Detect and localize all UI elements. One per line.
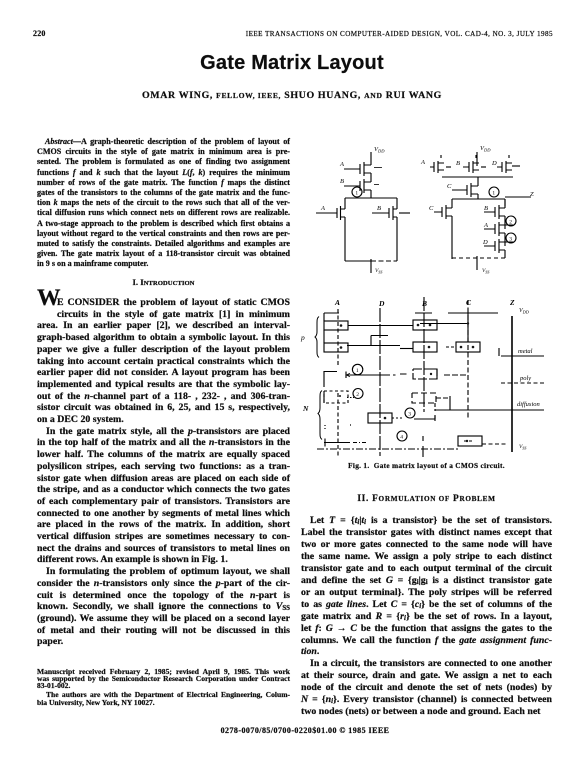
wire output rail (left circuit) [345,197,397,199]
poly line column A [337,309,339,366]
svg-text:C: C [466,298,472,307]
svg-text:A: A [339,161,344,168]
transistor QB p-FET gate B (right circuit) [456,155,486,173]
power VDD (left circuit) [371,146,385,162]
transistor box col A row p1 [324,313,348,330]
svg-text:B: B [456,160,460,167]
svg-text:4: 4 [400,435,403,441]
svg-text:1: 1 [492,191,495,197]
transistor MN1 n-FET gate A (left circuit) [316,205,345,261]
svg-text:A: A [334,298,340,307]
node 4 (matrix) [397,431,407,441]
node 3 (right circuit) [506,233,516,243]
svg-text:VDD: VDD [519,308,530,314]
transistor box col B row p2 [413,342,437,352]
svg-text:3: 3 [408,412,411,418]
node 2 (matrix) [353,389,363,399]
node 1 (right circuit) [489,187,499,197]
wire bottom-left metal segment [324,425,366,447]
svg-text:Z: Z [530,191,534,198]
poly line column B [423,297,425,412]
metal row 3 [347,336,413,349]
ground rail and Vss (right circuit) [452,256,505,274]
transistor box col B-C row n2 (dashed) [412,393,450,410]
svg-text:D: D [491,160,497,167]
poly line column C [467,300,469,420]
svg-text:VSS: VSS [482,268,489,274]
legend poly [501,375,544,383]
legend diffusion [517,401,540,408]
svg-text:2: 2 [356,392,359,398]
transistor QD p-FET gate D (right circuit) [491,155,520,173]
transistor QC2 n-FET gate C (right circuit) [429,199,452,259]
transistor box col D [368,413,404,423]
svg-text:VSS: VSS [519,444,526,450]
poly line column D [379,308,381,456]
svg-text:N: N [302,404,309,413]
svg-text:VSS: VSS [375,268,382,274]
svg-text:B: B [340,178,344,185]
svg-text:A: A [320,205,325,212]
svg-text:VDD: VDD [374,146,385,154]
legend metal [499,348,544,356]
svg-text:D: D [482,239,488,246]
svg-text:B: B [377,205,381,212]
diffusion row with col A box (dashed) [324,391,354,403]
svg-text:VDD: VDD [480,145,491,153]
svg-text:C: C [447,183,452,190]
transistor QC p-FET gate C (right circuit) [447,177,478,199]
brace N rows [302,391,322,440]
node 1 (left circuit output) [352,187,362,197]
metal row 2 [348,313,469,342]
svg-text:C: C [429,205,434,212]
common drain rail wire (right circuit) [442,176,513,178]
wire diffusion segment below node 3 [414,403,435,421]
svg-text:p: p [300,333,305,342]
node 1 (matrix) [352,364,362,374]
transistor box col C bottom row [458,436,508,446]
VDD metal row [324,308,530,314]
wire to n-FET A drain [344,198,346,209]
transistor MN2 n-FET gate B (left circuit) [372,198,410,261]
transistor QB2 n-FET gate B (series chain) [484,199,505,229]
svg-text:1: 1 [356,368,359,374]
transistor QA p-FET gate A (right circuit) [420,155,451,173]
node 2 (right circuit) [506,216,516,226]
gate line column Z (solid) [511,316,513,452]
metal row 5 / diffusion sample line [435,409,544,411]
svg-text:A: A [420,159,425,166]
wire node-1 rail and output Z [452,191,534,206]
svg-text:poly: poly [519,375,531,382]
power VDD (right circuit) [477,145,491,166]
svg-text:1: 1 [355,191,358,197]
svg-text:B: B [484,205,488,212]
metal row 4 with end tick [324,372,468,388]
node 3 (matrix) [405,408,415,418]
svg-text:Z: Z [509,298,515,307]
brace p rows [300,317,319,358]
svg-text:A: A [483,222,488,229]
ground rail and Vss (left circuit) [345,259,397,274]
transistor box col C row p2 [446,342,480,352]
transistor MP1 p-FET gate A (left circuit) [339,161,382,182]
transistor box col B row p1 [413,320,437,330]
Vss row (dash-dot) [317,444,526,450]
transistor box col B row n1 [413,369,437,379]
svg-text:D: D [378,299,385,308]
svg-text:metal: metal [518,348,533,355]
transistor MP2 p-FET gate B (left circuit) [340,178,379,198]
transistor QA2 n-FET gate A (series chain) [483,222,514,246]
svg-text:diffusion: diffusion [517,401,540,408]
transistor QD2 n-FET gate D (series chain) [482,239,514,258]
transistor box col A row p2 [324,330,348,352]
